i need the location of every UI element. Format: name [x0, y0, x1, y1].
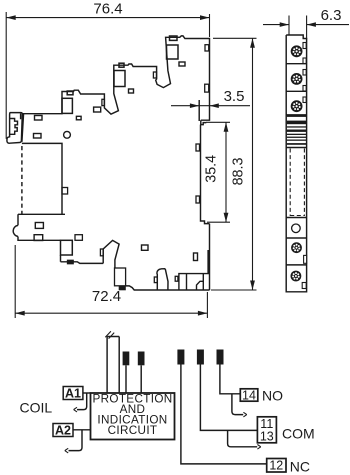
- inner wall 3.5: [198, 100, 200, 121]
- wire pin1: [125, 365, 127, 393]
- terminal 11 13: [257, 417, 276, 443]
- dimension 3.5: [171, 103, 250, 108]
- small rect pair upper left: [35, 116, 43, 121]
- cavity box D: [167, 45, 179, 59]
- tab below box1: [68, 260, 74, 263]
- bottom profile outline: [18, 143, 210, 290]
- terminal 12: [267, 459, 286, 473]
- small rect step B right: [76, 116, 81, 120]
- screw 2: [291, 73, 303, 85]
- small rect lower right: [194, 253, 198, 261]
- dashed edge: [21, 146, 23, 214]
- screw 3: [291, 100, 303, 112]
- pin NC: [177, 350, 184, 365]
- wire A1: [83, 392, 91, 394]
- terminal A1: [63, 387, 83, 400]
- svg-text:NO: NO: [262, 387, 283, 403]
- svg-text:88.3: 88.3: [231, 158, 247, 186]
- dimension 72.4 bottom: [15, 245, 207, 318]
- wire A2: [73, 429, 91, 431]
- small rect step C right: [129, 89, 134, 93]
- svg-text:A2: A2: [55, 423, 71, 437]
- side tab lower: [302, 283, 306, 289]
- dimension 35.4: [206, 122, 230, 222]
- screw 5: [291, 271, 302, 282]
- cavity box B: [62, 98, 72, 113]
- plain circle: [292, 224, 301, 233]
- wire NO: [220, 365, 240, 394]
- screw 4: [291, 242, 302, 253]
- contact hook NO: [232, 394, 243, 415]
- din rail clip: [7, 113, 24, 144]
- cavity box C: [114, 71, 125, 87]
- top slot hook: [201, 120, 207, 124]
- fang D tab: [153, 72, 156, 78]
- screw 1: [291, 45, 303, 57]
- right lower edge: [208, 224, 209, 291]
- dimension 88.3 right: [211, 38, 257, 290]
- terminal A2: [53, 424, 73, 437]
- pin A2-side: [138, 352, 145, 366]
- fang lower2 tab: [154, 277, 157, 283]
- dimension 6.3: [263, 16, 349, 39]
- notch rect D: [170, 36, 178, 40]
- side view outline: [286, 35, 306, 292]
- dimension 76.4 top: [6, 12, 209, 139]
- notch rect B: [67, 91, 73, 95]
- side notch right: [304, 255, 307, 263]
- pin COM: [197, 350, 204, 365]
- svg-text:14: 14: [242, 388, 256, 402]
- dashed inner rect: [290, 149, 304, 217]
- notch rect C: [119, 63, 124, 67]
- tabs right edge upper: [205, 45, 209, 51]
- wire NC: [181, 365, 267, 464]
- protection text: [92, 392, 172, 437]
- svg-text:35.4: 35.4: [204, 155, 220, 183]
- clip mount bump: [13, 225, 18, 236]
- side right tabs: [303, 43, 306, 49]
- svg-text:13: 13: [260, 429, 274, 443]
- svg-text:NC: NC: [290, 459, 310, 475]
- svg-text:3.5: 3.5: [224, 88, 245, 105]
- fang lower2: [157, 269, 168, 290]
- cavity box lower2: [115, 268, 126, 286]
- floating tab lower: [142, 245, 149, 250]
- big rect tab: [62, 188, 68, 195]
- lower tab right of box1: [75, 235, 82, 241]
- svg-text:76.4: 76.4: [93, 1, 122, 18]
- contact hook A2: [69, 430, 83, 451]
- terminal 14: [240, 389, 257, 401]
- protection box: [91, 393, 175, 440]
- top profile outline: [22, 36, 209, 120]
- small rect step D right: [179, 62, 185, 66]
- pin NO: [217, 350, 224, 365]
- svg-text:COM: COM: [282, 425, 315, 441]
- wire COM: [200, 365, 257, 431]
- svg-text:72.4: 72.4: [92, 288, 121, 305]
- wire pin2: [140, 365, 142, 393]
- side dividers: [286, 64, 306, 265]
- svg-text:COIL: COIL: [20, 400, 53, 416]
- fang lower1 tab: [100, 249, 103, 256]
- cavity box lower1: [61, 240, 73, 255]
- contact hook 13: [228, 430, 258, 446]
- tab below box2: [119, 286, 125, 289]
- svg-text:A1: A1: [65, 386, 81, 400]
- svg-text:6.3: 6.3: [321, 7, 342, 24]
- stripes: [287, 116, 306, 145]
- coil loop wire: [107, 337, 119, 394]
- lower box rects: [35, 223, 43, 229]
- svg-text:12: 12: [269, 459, 283, 473]
- pin A1-side: [123, 352, 130, 366]
- contact hook A1: [77, 393, 87, 410]
- terminal box bottom right: [179, 274, 210, 290]
- ring: [64, 131, 71, 138]
- tabs right face: [196, 144, 200, 151]
- fang B tab: [102, 99, 105, 105]
- right face 35.4: [201, 125, 210, 224]
- svg-text:CIRCUIT: CIRCUIT: [108, 424, 158, 437]
